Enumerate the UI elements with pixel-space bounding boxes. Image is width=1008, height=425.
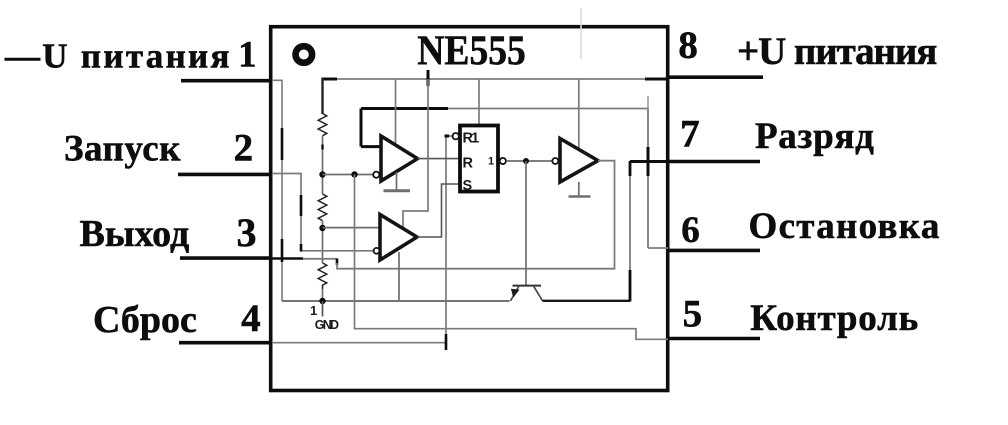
svg-text:NE555: NE555 [417, 26, 526, 74]
top rail black segment left [323, 78, 338, 81]
svg-text:R: R [463, 155, 474, 171]
pin 4 lead wire [179, 341, 270, 345]
output buffer triangle [560, 139, 598, 183]
top rail black segment right [645, 78, 667, 81]
pin 4 internal reset wire [272, 136, 453, 343]
discharge vertical black top segment [629, 161, 632, 176]
svg-text:1: 1 [488, 156, 494, 168]
svg-text:Сброс: Сброс [93, 299, 197, 341]
transistor Q1 base bar [513, 285, 542, 287]
svg-text:1: 1 [238, 34, 256, 75]
pin6 vertical overshoot [647, 96, 649, 109]
wire R3 to ground rail [322, 289, 324, 301]
FF output wire [506, 160, 552, 162]
node B junction dot (1/3 Vcc) [319, 225, 325, 231]
junction tick on rail at comparator supply [427, 70, 430, 86]
ground stub below dot [322, 301, 324, 317]
black tick at pin2 corner [300, 244, 303, 252]
svg-text:R1: R1 [463, 131, 480, 147]
resistor R3 (zigzag) [318, 263, 327, 289]
black segment where pin6 wire crosses discharge wire [647, 147, 650, 176]
svg-text:—U питания: —U питания [4, 36, 232, 75]
comparator U1 ground bar [384, 189, 411, 192]
discharge vertical wire [629, 162, 631, 301]
pin 3 corner tick [336, 259, 339, 266]
pin 6 horizontal to box edge [648, 247, 668, 249]
svg-text:8: 8 [678, 24, 698, 67]
svg-text:Контроль: Контроль [750, 298, 919, 339]
pin 3 lead wire [180, 256, 270, 260]
discharge horizontal to pin 7 [630, 160, 668, 163]
svg-text:Разряд: Разряд [755, 116, 874, 157]
pin 3 route to output buffer [337, 161, 615, 269]
control net: node A tap down to pin 5 [355, 175, 669, 340]
transistor base wire [525, 161, 527, 285]
svg-text:GND: GND [315, 318, 339, 332]
transistor Q1 emitter line [511, 286, 520, 301]
comparator U2 supply route [403, 79, 428, 227]
svg-text:Запуск: Запуск [64, 129, 181, 170]
FF output circle [500, 158, 506, 164]
svg-text:3: 3 [237, 210, 257, 255]
pin-1 index circle [296, 46, 313, 63]
U1 plus input wire [361, 145, 381, 148]
junction dot control tap [351, 171, 357, 177]
output buffer supply stub [578, 79, 580, 148]
threshold drop to comparator U1 plus input [360, 109, 363, 147]
black tick at pin4 corner [445, 334, 448, 350]
top Vcc rail [323, 78, 668, 80]
node A wire to comparator U1 inverting input [323, 174, 374, 176]
FF R1 input circle [453, 133, 459, 139]
pin 7 lead wire [667, 160, 760, 164]
buffer ground stem [578, 182, 580, 196]
svg-text:+U питания: +U питания [737, 30, 937, 73]
threshold net from pin 6: corner horizontal black [361, 107, 448, 110]
comparator U1 triangle [381, 136, 418, 181]
svg-text:6: 6 [681, 210, 700, 251]
pin 6 vertical wire [647, 109, 649, 249]
black segment on pin2 drop [300, 195, 303, 216]
discharge vertical black bottom segment [629, 270, 632, 302]
threshold horizontal gray continuation [448, 108, 648, 110]
U2 output route to FF S input [417, 184, 460, 237]
svg-text:Остановка: Остановка [749, 206, 941, 247]
black tick where pin3 wire crosses pin1 drop [281, 239, 284, 262]
output buffer input circle [552, 158, 558, 164]
ground rail [282, 300, 510, 302]
U1 output wire to FF R input [418, 158, 461, 160]
comparator U1 ground stem [396, 172, 398, 190]
pin 3 wire gray continuation [303, 258, 337, 260]
comparator U2 inverting input circle [374, 248, 380, 254]
black segment on pin1 drop [281, 128, 284, 160]
flip-flop U3 box [460, 126, 498, 192]
transistor Q1 collector line [534, 286, 543, 301]
svg-text:2: 2 [234, 127, 254, 170]
pin 8 lead wire [667, 75, 763, 79]
wire R1 to node A [322, 136, 324, 194]
node B wire to comparator U2 plus input [323, 227, 380, 229]
junction dot on output wire [523, 158, 529, 164]
svg-text:4: 4 [241, 297, 261, 340]
collector wire to discharge line [543, 300, 631, 302]
buffer ground bar [569, 195, 591, 198]
pin 2 lead wire [178, 173, 270, 177]
resistor chain top wire [321, 78, 323, 115]
pin 1 internal wire to ground rail [272, 80, 282, 301]
IC body rectangle [271, 27, 668, 391]
svg-text:S: S [463, 178, 473, 194]
ground rail junction dot [319, 298, 325, 304]
buffer output wire [598, 160, 615, 162]
pin 6 lead wire [667, 249, 760, 253]
black tick at R1 input corner [445, 135, 450, 138]
pin 2 internal wire to trigger comparator [272, 174, 374, 251]
transistor Q1 emitter arrow [511, 289, 520, 298]
small tick on chain [321, 145, 323, 150]
faint artifact line above box [580, 8, 582, 59]
flip-flop U3 supply stub [478, 79, 480, 126]
comparator U1 inverting input circle [373, 172, 379, 178]
svg-text:1: 1 [310, 303, 317, 318]
resistor R1 (zigzag) [318, 114, 327, 136]
svg-text:Выход: Выход [80, 213, 190, 255]
svg-text:7: 7 [680, 113, 700, 156]
pin 3 internal wire (black portion) [272, 257, 303, 260]
comparator U2 ground wire [398, 252, 400, 301]
node A junction dot (2/3 Vcc) [319, 171, 325, 177]
resistor R2 (zigzag) [318, 194, 327, 221]
comparator U2 triangle [380, 215, 417, 261]
svg-text:5: 5 [683, 293, 703, 336]
pin 5 lead wire [667, 337, 760, 341]
pin 1 lead wire [181, 79, 271, 83]
comparator U1 supply stub [395, 79, 397, 143]
wire R2 to node B [322, 221, 324, 263]
